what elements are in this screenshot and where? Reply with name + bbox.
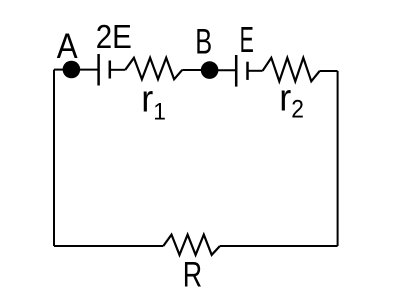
battery 2E long plate: [97, 54, 100, 86]
wire resistor R to bottom-right corner: [220, 245, 338, 247]
wire battery 2E to resistor r1: [110, 69, 126, 71]
svg-text:B: B: [195, 23, 212, 62]
wire node B to battery E: [217, 69, 235, 71]
resistor r2: [263, 58, 320, 82]
wire top-left to node A: [54, 69, 64, 71]
resistor R: [163, 235, 220, 255]
battery E long plate: [235, 55, 238, 87]
node B: [201, 61, 219, 79]
wire right side: [337, 71, 339, 246]
wire resistor r1 to node B: [182, 69, 202, 71]
svg-text:2E: 2E: [96, 18, 132, 55]
svg-text:r: r: [279, 78, 291, 120]
wire left side: [53, 70, 55, 246]
svg-text:E: E: [240, 19, 254, 60]
svg-text:1: 1: [153, 100, 166, 126]
svg-text:R: R: [183, 256, 202, 295]
svg-text:r: r: [141, 78, 153, 120]
battery 2E short plate: [109, 61, 112, 79]
svg-text:2: 2: [291, 96, 304, 123]
wire bottom-left to resistor R: [54, 245, 163, 247]
wire resistor r2 to top-right corner: [320, 70, 338, 72]
svg-text:A: A: [57, 27, 78, 66]
battery E short plate: [246, 62, 249, 80]
resistor r1: [125, 58, 182, 80]
node A: [63, 61, 81, 79]
wire node A to battery 2E: [78, 69, 98, 71]
wire battery E to resistor r2: [248, 70, 263, 72]
